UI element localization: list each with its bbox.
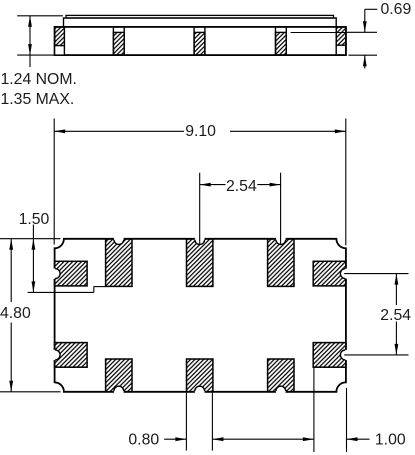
bottom view left pad A [55, 261, 88, 286]
svg-text:1.50: 1.50 [19, 211, 50, 228]
top edge extension line left [0, 238, 61, 240]
notch top pad 2 [195, 234, 205, 244]
dimension 1.00 [314, 368, 370, 453]
dimension 9.10 [54, 119, 346, 246]
notch top pad 1 [114, 234, 124, 244]
notch left pad B [50, 350, 60, 360]
notch right pad B [340, 350, 350, 360]
svg-text:0.69: 0.69 [381, 1, 412, 18]
bottom edge extension line left [0, 391, 61, 393]
svg-text:1.35 MAX.: 1.35 MAX. [1, 91, 75, 108]
side view middle pad 2 [194, 27, 205, 55]
bottom view bottom pad 3 [268, 359, 294, 392]
svg-text:2.54: 2.54 [226, 178, 257, 195]
dimension 1.50 [28, 225, 106, 293]
bottom view bottom pad 2 [187, 359, 213, 392]
side view body [55, 27, 346, 55]
side view middle pad 3 [276, 27, 287, 55]
bottom view right pad A [313, 261, 346, 286]
svg-text:9.10: 9.10 [185, 123, 216, 140]
side view left end pad hatch [55, 27, 65, 46]
side view left end pad lower square [55, 46, 65, 56]
dimension 0.69 [346, 9, 377, 68]
svg-text:1.24 NOM.: 1.24 NOM. [1, 71, 77, 88]
dimension 2.54 top [200, 173, 281, 244]
notch top pad 3 [276, 234, 286, 244]
bottom view left pad B [55, 343, 88, 368]
side view lid flange [64, 18, 337, 27]
bottom view top pad 3 [268, 239, 294, 287]
side view right end pad [336, 27, 346, 55]
svg-text:1.00: 1.00 [375, 432, 406, 449]
dimension 2.54 right [344, 274, 408, 355]
notch right pad A [340, 268, 350, 278]
bottom view right pad B [313, 343, 346, 368]
side view internal feature line [291, 32, 346, 34]
side view middle pad 1 [113, 27, 124, 55]
bottom view top pad 2 [187, 239, 213, 287]
bottom view outline [55, 239, 346, 392]
dimension 4.80 [10, 239, 12, 392]
dimension 1.24/1.35 height [17, 16, 63, 67]
notch bottom pad 2 [195, 386, 205, 396]
svg-text:0.80: 0.80 [128, 432, 159, 449]
dimension 0.80 [164, 393, 314, 451]
notch left pad A [50, 268, 60, 278]
bottom view top pad 1 [106, 239, 132, 287]
notch bottom pad 3 [276, 386, 286, 396]
notch bottom pad 1 [114, 386, 124, 396]
svg-text:4.80: 4.80 [0, 305, 31, 322]
bottom view bottom pad 1 [106, 359, 132, 392]
svg-text:2.54: 2.54 [380, 307, 411, 324]
side view lid top plate [66, 15, 334, 18]
